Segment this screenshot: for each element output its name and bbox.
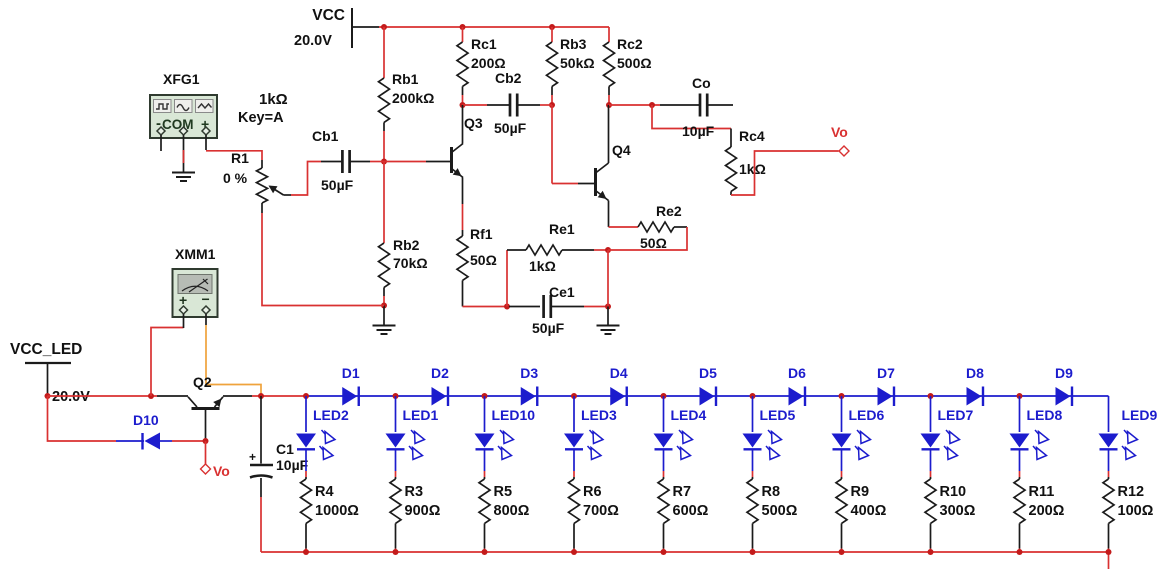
svg-text:R1: R1 [231, 150, 249, 166]
wire LED5 cathode [752, 449, 754, 477]
diode D6 [789, 387, 806, 407]
node bottom rail junction col 7 [839, 549, 845, 555]
node bottom rail junction col 10 [1106, 549, 1112, 555]
svg-text:Cb2: Cb2 [495, 70, 522, 86]
svg-text:R4: R4 [315, 484, 334, 500]
label 500&#937; (R8) [762, 503, 798, 519]
svg-text:1000Ω: 1000Ω [315, 503, 359, 519]
label 300&#937; (R10) [940, 503, 976, 519]
svg-text:D4: D4 [610, 365, 628, 381]
resistor R9 [836, 477, 847, 549]
node rail junction col 3 [482, 393, 488, 399]
label Rb1 [392, 71, 419, 87]
svg-text:700Ω: 700Ω [583, 503, 619, 519]
svg-text:LED2: LED2 [313, 407, 349, 423]
svg-text:R6: R6 [583, 484, 602, 500]
resistor R6 [569, 477, 580, 549]
svg-text:0 %: 0 % [223, 170, 248, 186]
svg-text:+: + [249, 450, 256, 464]
resistor Re2 [638, 222, 687, 232]
label 1kΩ (Rc4) [739, 161, 766, 177]
resistor Rb2 [379, 243, 390, 296]
node Q3 collector junction [460, 102, 466, 108]
wire Q2 emitter to C1 node [252, 395, 306, 397]
wire Re1 right [594, 249, 608, 251]
svg-text:Cb1: Cb1 [312, 128, 339, 144]
LED LED3 [564, 430, 603, 460]
svg-text:50µF: 50µF [321, 177, 354, 193]
label D7 [877, 365, 895, 381]
wire R10 bottom [930, 549, 932, 553]
resistor R4 [301, 477, 312, 549]
resistor R7 [658, 477, 669, 549]
label 200kΩ (Rb1) [392, 90, 434, 106]
wire LED1 anode [395, 396, 397, 432]
transistor Q3 [426, 144, 463, 178]
resistor Rb3 [547, 42, 558, 95]
wire XFG1 plus to R1 [206, 151, 262, 160]
label 20.0V (VCC_LED) [52, 389, 90, 405]
wire Rb1 top [383, 27, 385, 78]
wire Rb1 bottom [383, 131, 385, 162]
label 600&#937; (R7) [673, 503, 709, 519]
wire LED2 cathode [305, 449, 307, 477]
transistor Q4 [578, 163, 609, 201]
resistor R12 [1103, 477, 1114, 549]
wire Rb2 top [383, 162, 385, 244]
svg-text:1kΩ: 1kΩ [529, 258, 556, 274]
svg-text:200Ω: 200Ω [471, 55, 506, 71]
node Q4 collector junction [606, 102, 612, 108]
node bottom rail junction col 1 [303, 549, 309, 555]
svg-text:R12: R12 [1118, 484, 1145, 500]
svg-text:500Ω: 500Ω [617, 55, 652, 71]
node bottom rail junction col 3 [482, 549, 488, 555]
resistor R11 [1014, 477, 1025, 549]
svg-text:D7: D7 [877, 365, 895, 381]
wire C1 to bottom rail [260, 497, 262, 552]
svg-text:Q2: Q2 [193, 374, 212, 390]
wire Cb1 right [370, 161, 384, 163]
label 200Ω (Rc1) [471, 55, 506, 71]
svg-text:600Ω: 600Ω [673, 503, 709, 519]
diode D7 [878, 387, 895, 407]
label Key=A (R1) [238, 110, 284, 126]
wire node A vertical [506, 250, 508, 307]
wire Co bypass to Rc4 [652, 105, 731, 129]
label D8 [966, 365, 984, 381]
node bottom rail junction col 4 [571, 549, 577, 555]
terminal XFG1 plus [202, 127, 210, 135]
terminal XFG1 com [180, 127, 188, 135]
wire R3 bottom [395, 549, 397, 553]
pin stub XFG1 com [183, 135, 185, 172]
node rail junction col 4 [571, 393, 577, 399]
label -COM+ on XFG1 [156, 115, 209, 132]
wire LED4 cathode [663, 449, 665, 477]
ground under Ce1 [597, 307, 620, 335]
label 50µF (Cb2) [494, 120, 527, 136]
label R6 [583, 484, 602, 500]
label R8 [762, 484, 781, 500]
svg-text:Rb1: Rb1 [392, 71, 419, 87]
label Re1 [549, 221, 575, 237]
diode D8 [967, 387, 984, 407]
label LED7 [938, 407, 974, 423]
label 900&#937; (R3) [405, 503, 441, 519]
label R7 [673, 484, 692, 500]
label 100&#937; (R12) [1118, 503, 1154, 519]
node bottom rail junction col 5 [661, 549, 667, 555]
svg-text:Re2: Re2 [656, 203, 682, 219]
terminal XMM1 minus [202, 306, 210, 314]
label 1kΩ (Re1) [529, 258, 556, 274]
node Co junction [649, 102, 655, 108]
diode D5 [700, 387, 717, 407]
instrument XFG1 box [150, 95, 217, 138]
svg-text:200Ω: 200Ω [1029, 503, 1065, 519]
wire Re2 right down [608, 227, 687, 250]
label Cb2 [495, 70, 522, 86]
LED LED9 [1099, 430, 1138, 460]
svg-text:10µF: 10µF [276, 457, 309, 473]
LED LED5 [743, 430, 782, 460]
svg-text:XFG1: XFG1 [163, 71, 200, 87]
svg-text:800Ω: 800Ω [494, 503, 530, 519]
wire LED6 anode [841, 396, 843, 432]
instrument XMM1 box [173, 269, 218, 317]
label LED5 [760, 407, 796, 423]
diode D2 [432, 387, 449, 407]
wire Q4 base vertical [552, 105, 578, 184]
pin stub XMM1 minus [205, 314, 207, 325]
node Vo2 output terminal [201, 464, 211, 474]
svg-text:50kΩ: 50kΩ [560, 55, 595, 71]
node bottom rail junction col 6 [750, 549, 756, 555]
label 10µF (C1) [276, 457, 309, 473]
label VCC_LED [10, 341, 82, 358]
node bottom rail junction col 8 [928, 549, 934, 555]
label LED6 [849, 407, 885, 423]
label 500Ω (Rc2) [617, 55, 652, 71]
svg-text:LED7: LED7 [938, 407, 974, 423]
wire VCC top rail [379, 26, 609, 28]
svg-text:D2: D2 [431, 365, 449, 381]
power VCC_LED symbol [25, 363, 71, 395]
svg-text:Key=A: Key=A [238, 110, 284, 126]
wire Rc2 bottom [608, 95, 610, 105]
capacitor Cb2 [487, 94, 540, 117]
resistor R8 [747, 477, 758, 549]
resistor Rc4 [726, 129, 737, 196]
wire XMM1 plus path [151, 328, 184, 397]
svg-text:LED3: LED3 [581, 407, 617, 423]
wire Rb3 bottom [551, 95, 553, 105]
svg-text:50Ω: 50Ω [470, 252, 497, 268]
svg-text:C1: C1 [276, 441, 294, 457]
svg-text:Ce1: Ce1 [549, 284, 575, 300]
wire LED10 anode [484, 396, 486, 432]
label 20.0V (VCC) [294, 33, 332, 49]
wire LED2 anode [305, 396, 307, 432]
svg-text:Vo: Vo [831, 124, 848, 140]
label Rc4 [739, 128, 765, 144]
wire right emitter node vertical [607, 250, 609, 307]
LED LED10 [475, 430, 514, 460]
node junction rail-Rb1 [381, 24, 387, 30]
label R3 [405, 484, 424, 500]
ground under XFG1 [172, 173, 195, 182]
label 10µF (Co) [682, 123, 715, 139]
wire VCC_LED down to D10 [48, 396, 117, 441]
svg-text:LED6: LED6 [849, 407, 885, 423]
label Rb2 [393, 237, 420, 253]
wire LED4 anode [663, 396, 665, 432]
label Q4 [612, 142, 631, 158]
wire Q2 base to Vo [205, 441, 207, 464]
label R5 [494, 484, 513, 500]
svg-text:50µF: 50µF [494, 120, 527, 136]
label 400&#937; (R9) [851, 503, 887, 519]
wire XMM1 minus orange [206, 325, 261, 395]
wire D10 cathode [160, 440, 205, 442]
wire LED6 cathode [841, 449, 843, 477]
node rail junction col 8 [928, 393, 934, 399]
label 50µF (Cb1) [321, 177, 354, 193]
label Cb1 [312, 128, 339, 144]
label D5 [699, 365, 717, 381]
svg-text:Rb2: Rb2 [393, 237, 420, 253]
wire Rc1 top [462, 27, 464, 42]
node VCC_LED junction [45, 393, 51, 399]
wire LED1 cathode [395, 449, 397, 477]
label LED10 [492, 407, 536, 423]
power VCC symbol [352, 8, 379, 48]
svg-text:Rf1: Rf1 [470, 226, 493, 242]
label R10 [940, 484, 967, 500]
wire LED5 anode [752, 396, 754, 432]
transistor Q2 [188, 397, 223, 440]
node junction rail-Rb3 [549, 24, 555, 30]
svg-text:Vo: Vo [213, 463, 230, 479]
svg-text:Q3: Q3 [464, 115, 483, 131]
terminal XMM1 plus [180, 306, 188, 314]
svg-text:Q4: Q4 [612, 142, 631, 158]
node rail junction col 2 [393, 393, 399, 399]
LED LED6 [832, 430, 871, 460]
resistor Re1 [507, 245, 594, 255]
svg-text:Rc1: Rc1 [471, 36, 497, 52]
label LED3 [581, 407, 617, 423]
svg-text:50µF: 50µF [532, 320, 565, 336]
svg-text:20.0V: 20.0V [52, 389, 90, 405]
svg-text:300Ω: 300Ω [940, 503, 976, 519]
label Rc2 [617, 36, 643, 52]
wire LED7 anode [930, 396, 932, 432]
svg-text:Rc4: Rc4 [739, 128, 765, 144]
svg-text:XMM1: XMM1 [175, 246, 216, 262]
pin stub XFG1 minus [160, 135, 162, 151]
label 200&#937; (R11) [1029, 503, 1065, 519]
node Ce1 right junction [605, 304, 611, 310]
wire LED10 cathode [484, 449, 486, 477]
svg-text:400Ω: 400Ω [851, 503, 887, 519]
label D10 [133, 412, 159, 428]
resistor Rb1 [379, 78, 390, 131]
wire Q2 collector [157, 395, 188, 397]
resistor R10 [925, 477, 936, 549]
svg-text:LED10: LED10 [492, 407, 536, 423]
LED LED2 [296, 430, 335, 460]
LED LED4 [654, 430, 693, 460]
node feedback junction A [504, 304, 510, 310]
label Vo (top) [831, 124, 848, 140]
wire Rb2 bottom [383, 296, 385, 306]
label Q2 [193, 374, 212, 390]
svg-text:10µF: 10µF [682, 123, 715, 139]
diode D10 [143, 433, 161, 450]
wire Q4 emitter to Re2 [609, 226, 639, 228]
svg-text:1kΩ: 1kΩ [739, 161, 766, 177]
label 800&#937; (R5) [494, 503, 530, 519]
pin stub XMM1 plus [183, 314, 185, 328]
node junction rail-Rc1 [460, 24, 466, 30]
label 50µF (Ce1) [532, 320, 565, 336]
wire Rc1 bottom [462, 95, 464, 105]
wire R6 bottom [573, 549, 575, 553]
capacitor Cb1 [321, 150, 370, 173]
label Re2 [656, 203, 682, 219]
label 1kΩ (R1) [259, 91, 288, 108]
label XMM1 [175, 246, 216, 262]
wire R4 bottom [305, 549, 307, 553]
svg-text:R9: R9 [851, 484, 870, 500]
svg-text:R10: R10 [940, 484, 967, 500]
ground under Rb2 [373, 306, 396, 335]
wire XFG1 com red overlay [183, 150, 185, 163]
wire Rf1 bottom to node [463, 306, 508, 308]
label D6 [788, 365, 806, 381]
wire LED8 anode [1019, 396, 1021, 432]
svg-text:VCC_LED: VCC_LED [10, 341, 82, 358]
terminal XFG1 minus [157, 127, 165, 135]
label C1 [276, 441, 294, 457]
svg-text:R11: R11 [1029, 484, 1055, 500]
label LED4 [671, 407, 707, 423]
label R9 [851, 484, 870, 500]
svg-text:900Ω: 900Ω [405, 503, 441, 519]
label 700&#937; (R6) [583, 503, 619, 519]
svg-text:COM: COM [162, 117, 194, 132]
label LED9 [1122, 407, 1158, 423]
label 70kΩ (Rb2) [393, 255, 428, 271]
node rail junction col 7 [839, 393, 845, 399]
capacitor C1 [249, 396, 273, 497]
wire Q3 collector [462, 105, 464, 144]
potentiometer R1 [257, 160, 292, 213]
svg-text:LED1: LED1 [403, 407, 439, 423]
wire LED9 cathode [1108, 449, 1110, 477]
label Q3 [464, 115, 483, 131]
svg-text:D8: D8 [966, 365, 984, 381]
svg-text:Re1: Re1 [549, 221, 575, 237]
svg-text:−: − [202, 291, 210, 307]
label LED1 [403, 407, 439, 423]
label VCC [312, 7, 345, 24]
node XMM plus junction [148, 393, 154, 399]
svg-text:LED8: LED8 [1027, 407, 1063, 423]
label Ce1 [549, 284, 575, 300]
wire R5 bottom [484, 549, 486, 553]
label 1000&#937; (R4) [315, 503, 359, 519]
wire Q4 collector [608, 105, 610, 163]
node Q2 base junction [203, 438, 209, 444]
node rail junction col 6 [750, 393, 756, 399]
label LED8 [1027, 407, 1063, 423]
wire bottom rail right stub [1108, 552, 1110, 569]
label plus-minus on XMM1 [179, 291, 210, 308]
node emitter network junction [605, 247, 611, 253]
diode D1 [342, 387, 359, 407]
capacitor Ce1 [509, 295, 584, 318]
label D9 [1055, 365, 1073, 381]
wire Rc4 bottom to Vo [731, 151, 839, 195]
label D2 [431, 365, 449, 381]
label Co [692, 75, 711, 91]
svg-text:LED9: LED9 [1122, 407, 1158, 423]
resistor Rf1 [457, 230, 468, 307]
wire LED7 cathode [930, 449, 932, 477]
label D1 [342, 365, 360, 381]
node C1 junction [258, 393, 264, 399]
node bottom rail junction col 2 [393, 549, 399, 555]
node base Q3 junction [381, 159, 387, 165]
diode D9 [1056, 387, 1073, 407]
svg-text:Co: Co [692, 75, 711, 91]
wire LED9 anode [1108, 396, 1110, 432]
node ground junction left [381, 303, 387, 309]
resistor Rc1 [457, 42, 468, 95]
LED LED1 [386, 430, 425, 460]
diode D4 [610, 387, 627, 407]
svg-text:1kΩ: 1kΩ [259, 91, 288, 108]
wire Q3 base [384, 161, 426, 163]
resistor R3 [390, 477, 401, 549]
svg-text:LED5: LED5 [760, 407, 796, 423]
wire R8 bottom [752, 549, 754, 553]
capacitor Co [660, 94, 733, 117]
label Vo (bottom) [213, 463, 230, 479]
pin stub XFG1 plus [205, 135, 207, 150]
svg-text:D6: D6 [788, 365, 806, 381]
wire R1 bottom [262, 213, 384, 306]
diode D3 [521, 387, 538, 407]
wire R1 wiper to Cb1 [291, 162, 321, 196]
label 50kΩ (Rb3) [560, 55, 595, 71]
wire Q4 emitter [608, 201, 610, 228]
node rail junction col 1 [303, 393, 309, 399]
LED LED8 [1010, 430, 1049, 460]
svg-text:D3: D3 [520, 365, 538, 381]
svg-text:50Ω: 50Ω [640, 235, 667, 251]
label 0 % (R1) [223, 170, 248, 186]
wire Q3 emitter [462, 178, 464, 231]
svg-text:R5: R5 [494, 484, 513, 500]
label Rb3 [560, 36, 587, 52]
label R1 [231, 150, 249, 166]
LED LED7 [921, 430, 960, 460]
svg-text:D5: D5 [699, 365, 717, 381]
